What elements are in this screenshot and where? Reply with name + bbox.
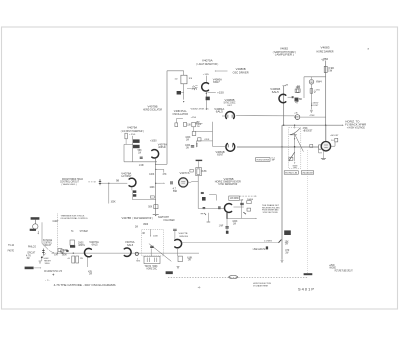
potentiometer bottom left [42, 249, 44, 256]
svg-text:S 4 0 1 P: S 4 0 1 P [298, 288, 315, 292]
svg-text:V4070A: V4070A [202, 59, 213, 62]
wire V4081B pin right [288, 96, 292, 98]
resistor marks above V4077A [190, 169, 193, 172]
wire V4081B vertical [283, 86, 285, 125]
wire to arrow [156, 182, 161, 184]
wire dark cathode segment [226, 213, 228, 219]
capacitor dark pair [240, 203, 244, 204]
svg-text:50K: 50K [148, 207, 153, 209]
wire tube2 cathode down [155, 159, 157, 165]
wire from osc to coupling [195, 131, 212, 133]
capacitor C403 electrolytic [295, 98, 298, 101]
svg-text:+250: +250 [191, 117, 197, 119]
svg-text:100K: 100K [150, 187, 156, 189]
diagonal winding tap [295, 135, 304, 152]
svg-text:CHES: CHES [78, 242, 84, 244]
marks left of cathode [201, 213, 204, 215]
arrow from hold control [88, 181, 94, 183]
capacitor left of hook [191, 146, 194, 147]
ground bottom left [39, 261, 42, 263]
svg-text:HORIZ OSCILLATOR: HORIZ OSCILLATOR [143, 108, 162, 111]
blocking osc dashed box [142, 229, 164, 256]
wire V4078A cathode to line [131, 190, 133, 199]
termination bar output cathode [321, 158, 326, 160]
svg-text:6SN7: 6SN7 [213, 82, 220, 84]
diode diagonal yoke [289, 152, 295, 161]
svg-text:PHOTO: PHOTO [8, 251, 15, 253]
junction V4081B / bus [283, 125, 284, 126]
svg-text:1 MF: 1 MF [139, 165, 145, 167]
resistor 6.8K box [196, 168, 202, 176]
wire inverter left vertical [123, 144, 125, 161]
svg-text:V4076B: V4076B [224, 178, 234, 181]
wire V4078A pin down [131, 188, 133, 191]
resistor phase det 2 [247, 208, 251, 211]
wire to T4074 [150, 249, 152, 257]
junction arrow branch [155, 183, 156, 184]
wire L below-left of output tube [319, 149, 322, 153]
junction dark bottom left [41, 257, 43, 259]
resistor column C [192, 122, 196, 127]
wire angled to bus [49, 250, 53, 252]
arrow mark at line end [278, 240, 281, 243]
svg-text:V4081B: V4081B [216, 152, 226, 154]
tube V4076B [225, 204, 232, 213]
wire inverter left stub [124, 143, 133, 145]
wire V4076B cathode down [226, 213, 228, 233]
svg-text:+BOOST: +BOOST [330, 135, 339, 137]
resistor below bus 1 [72, 256, 75, 263]
boxed label 10K DRIVE [229, 196, 240, 200]
wire diode down [294, 153, 296, 161]
wire bottom bus [52, 252, 200, 254]
capacitor small keyer [203, 208, 206, 209]
wire long vertical left branch [166, 71, 168, 165]
wire left branch vertical [303, 77, 305, 98]
svg-text:V4077B: V4077B [179, 233, 189, 235]
resistor R402 on cathode [310, 89, 313, 94]
wire V4081A left stub [222, 115, 226, 117]
resistor dark box 1 [133, 139, 140, 143]
svg-text:470K: 470K [310, 115, 316, 117]
width coil dark base [70, 245, 75, 247]
svg-text:( AMPLIFIER ): ( AMPLIFIER ) [275, 54, 294, 57]
svg-text:FOLLOWER: FOLLOWER [164, 220, 175, 222]
wire from pilot to damper branch [300, 116, 326, 118]
svg-text:V4082 470K .05: V4082 470K .05 [191, 108, 210, 110]
svg-text:10K 9489: 10K 9489 [230, 198, 239, 200]
dashed signal line bottom [168, 277, 308, 279]
svg-text:SAWTOOTH: SAWTOOTH [158, 216, 169, 219]
svg-text:CANT: CANT [53, 220, 60, 223]
arrow mark after line length [266, 246, 268, 249]
label SYNC IN dark text [25, 267, 34, 270]
junction flyback tap [294, 146, 296, 148]
flyback winding arc [290, 128, 301, 135]
resistor column D [192, 132, 196, 136]
svg-text:( WHEN USED ): ( WHEN USED ) [62, 184, 77, 186]
resistor R401 3.9K [324, 66, 327, 72]
oval terminal on dashed line [229, 276, 238, 279]
capacitor plate bar above keyer [196, 160, 203, 161]
svg-text:+B BOOST: +B BOOST [303, 131, 313, 133]
svg-text:DET: DET [228, 105, 233, 107]
resistor right of dotted line [310, 144, 313, 147]
tube V4080 output ring [321, 142, 330, 151]
capacitor C402 box [297, 89, 301, 93]
wire V4077A pin right [188, 181, 191, 183]
bracket pin left of output tube [319, 145, 322, 149]
svg-text:V4078B: V4078B [122, 217, 132, 220]
wire cathode follower long line [182, 242, 280, 244]
svg-text:( 1/2 6SN7 INVERTER ): ( 1/2 6SN7 INVERTER ) [121, 131, 144, 133]
svg-text:3.9K: 3.9K [328, 68, 335, 70]
resistor dark below V4078A 1 [133, 190, 136, 193]
svg-text:PHILCO: PHILCO [28, 246, 36, 248]
dashed leader to right [240, 195, 256, 197]
wire between resistors [193, 127, 195, 132]
wire AFC output line [236, 115, 294, 117]
svg-text:BOOST: BOOST [311, 105, 319, 107]
termination bar small [207, 221, 211, 223]
svg-text:-4-: -4- [198, 287, 201, 290]
svg-text:+ HIGH VOLTAGE: + HIGH VOLTAGE [347, 126, 365, 129]
resistor V4077B cathode [178, 256, 182, 262]
coil horiz hold loop [35, 220, 37, 224]
svg-text:MEG: MEG [136, 261, 140, 263]
wire to +150 label [208, 91, 216, 93]
svg-text:1 MF: 1 MF [219, 226, 224, 228]
wire to damper tube [310, 77, 312, 79]
tube V4081B lower inner pins [227, 144, 229, 147]
deflection coil dark bar [304, 273, 313, 275]
arrowhead yoke down [294, 163, 295, 164]
svg-text:WIDTH: WIDTH [78, 245, 85, 247]
svg-text:+350: +350 [321, 58, 329, 61]
wire corner to long vertical [156, 163, 167, 165]
diagonal wire to bus [42, 243, 48, 249]
wire to coil [187, 87, 192, 89]
capacitor on cathode [225, 227, 228, 228]
wire damper plate vertical [325, 61, 327, 142]
resistor column A [175, 123, 178, 127]
wire sync in arrow [34, 267, 40, 269]
tube V4081A [226, 112, 235, 119]
svg-text:PICTURE TUBE CIRCUIT: PICTURE TUBE CIRCUIT [335, 270, 353, 272]
svg-text:47K: 47K [163, 174, 168, 176]
svg-text:TV-10: TV-10 [8, 245, 15, 247]
potentiometer small mark [196, 143, 198, 147]
arrowhead to flyback [342, 125, 343, 126]
resistor 50K on vertical [154, 205, 158, 209]
junction grid [108, 183, 109, 184]
transformer T4070 box [181, 75, 187, 84]
junction with drive line [281, 146, 282, 147]
wire inverter vertical [131, 136, 133, 162]
wire bracket vertical [215, 195, 217, 201]
capacitor before V4077A [171, 181, 172, 184]
svg-text:6W4: 6W4 [316, 81, 322, 83]
svg-text:2ND ANODE: 2ND ANODE [302, 171, 313, 174]
wire flyback center tap [294, 133, 296, 147]
junction cathode corner [155, 164, 156, 165]
svg-text:OSC DRIVER: OSC DRIVER [233, 71, 249, 74]
wire inverter bottom horizontal [124, 161, 157, 163]
capacitor hatched below V4070A [206, 97, 210, 101]
wire V4077B cathode down [177, 248, 179, 256]
svg-text:ANODE: ANODE [329, 267, 336, 270]
wire grid branch down [108, 183, 110, 203]
wire V4070A cathode vertical [205, 91, 207, 110]
wire output tube plate [325, 125, 327, 141]
coil L4070 squiggle [192, 88, 197, 90]
svg-text:V4082: V4082 [280, 48, 289, 51]
width coil box left [70, 240, 75, 245]
wire diode cathode down [86, 258, 88, 268]
svg-text:HORIZ DAMPER: HORIZ DAMPER [317, 50, 334, 53]
wire V4077A to keyer [191, 181, 198, 183]
resistor dark box 2 [133, 145, 140, 148]
svg-text:V4080A: V4080A [213, 78, 223, 81]
svg-text:V4076A: V4076A [89, 241, 99, 244]
svg-text:V4083: V4083 [321, 47, 331, 50]
svg-text:100K: 100K [153, 236, 159, 238]
diagonal arrow to junction [43, 253, 46, 256]
wire hold to V4078A grid [101, 182, 127, 184]
junction cathode [206, 93, 207, 94]
svg-text:6AL5: 6AL5 [216, 111, 224, 114]
wire +350 tick [322, 60, 324, 62]
junction circle output [135, 252, 138, 255]
wire long vertical feed [281, 125, 283, 259]
svg-text:LINE LENGTH: LINE LENGTH [253, 249, 266, 251]
svg-text:V4077A: V4077A [180, 172, 190, 175]
capacitor above bus second [66, 250, 68, 251]
wire branch to 47K [156, 168, 164, 170]
capacitor left of V4076B [219, 206, 220, 209]
component BAL dark box [177, 91, 181, 95]
resistor right of V4081B [295, 89, 299, 93]
svg-text:100K: 100K [111, 201, 117, 203]
wire top left horizontal [167, 70, 184, 72]
svg-text:+150: +150 [129, 134, 136, 136]
resistor left of inverter [125, 133, 127, 139]
capacitor dark electrolytic keyer [202, 197, 206, 201]
wire HV bus [282, 124, 342, 126]
capacitor blocking [150, 246, 153, 247]
boxed label focus control [256, 158, 270, 162]
svg-text:HORIZ LIN: HORIZ LIN [285, 172, 297, 174]
junction branch [155, 169, 156, 170]
wire output cathode down [322, 151, 324, 159]
svg-text:( SAWTOOTH HORIZ ): ( SAWTOOTH HORIZ ) [273, 51, 296, 54]
arrowhead to bus [53, 252, 54, 253]
component dark at cathode bottom [226, 231, 229, 234]
label TUNE dark text [30, 229, 36, 231]
junction bus / damper [325, 125, 326, 126]
termination bar [153, 213, 159, 215]
terminal +B pilot circle [295, 115, 300, 120]
svg-text:SYNC SEPARATOR: SYNC SEPARATOR [218, 183, 237, 186]
tube V4079A section 2 [152, 150, 159, 158]
tube V4077A ring [179, 178, 188, 187]
svg-text:VOLTAGE HERE: VOLTAGE HERE [253, 284, 268, 287]
wire boost resistor to tube [331, 142, 335, 146]
boxed label horiz linearity [284, 171, 298, 174]
width coil box [289, 157, 293, 160]
wire damper cathode vertical [310, 84, 312, 109]
tube V4083 envelope [309, 80, 314, 85]
transformer T4074 box [144, 256, 160, 263]
junction bus a [57, 252, 58, 253]
arrowhead inside box [150, 236, 151, 237]
boxed label horiz width [301, 171, 313, 174]
arrowhead down winding [294, 138, 295, 139]
svg-text:OSCILLATOR: OSCILLATOR [173, 113, 189, 116]
ground V4077B [177, 267, 180, 269]
plus mark [52, 274, 54, 276]
ground damper cathode [310, 110, 313, 112]
wire keyer to tube grid [198, 208, 224, 210]
wire small corner [176, 118, 183, 120]
svg-text:SYSTEM: SYSTEM [80, 231, 88, 233]
capacitor inverter [140, 157, 143, 158]
tube V4077B [175, 239, 182, 247]
svg-text:SYNC SECTIONS: SYNC SECTIONS [263, 212, 278, 214]
wire long lower vertical [155, 159, 157, 215]
wire resistor to box [125, 139, 127, 145]
svg-text:AMPLIF.: AMPLIF. [158, 146, 166, 149]
wire hook down [195, 141, 197, 147]
wire dotted long vertical right [307, 150, 309, 273]
wire dotted branch left [56, 214, 58, 254]
arrowhead down left cluster [38, 233, 39, 234]
svg-text:V4079A: V4079A [127, 127, 137, 130]
tube V4070A section [202, 83, 209, 91]
termination bars yoke [293, 165, 298, 167]
svg-text:+1000: +1000 [150, 140, 157, 142]
capacitor at V4081B pin [292, 96, 293, 98]
resistor column B [184, 122, 187, 126]
svg-text:HORIZ OSC: HORIZ OSC [147, 269, 158, 271]
wire V4076B plate right [234, 206, 244, 208]
arrowhead output [256, 218, 257, 219]
resistor below bus 2 [76, 256, 79, 263]
ground long vertical [281, 260, 284, 262]
wire keyer vertical [197, 175, 199, 208]
svg-text:4-76 THE CATHODE - RAY OSCI: 4-76 THE CATHODE - RAY OSCILLOGRAMS [54, 283, 116, 287]
svg-text:V4076A: V4076A [125, 241, 135, 244]
svg-text:10K: 10K [187, 124, 191, 126]
wire comparator output [227, 217, 256, 219]
tube V4076A left [85, 248, 92, 256]
tube V4081A inner pins [227, 115, 229, 118]
mark small star [243, 212, 246, 214]
svg-text:360K: 360K [62, 255, 68, 257]
arrowhead into V4077A [164, 183, 165, 184]
T4074 internal marks [146, 258, 148, 262]
junction comparator [226, 218, 227, 219]
flyback winding bar [290, 134, 297, 136]
capacitor on cathode line [150, 196, 154, 198]
junction left of pilot [295, 116, 296, 117]
svg-text:ON HORIZONTAL CONTROL: ON HORIZONTAL CONTROL [60, 217, 88, 220]
wire stub to osc transformer [183, 71, 185, 75]
capacitor on keyer vertical [201, 192, 204, 193]
svg-text:( SAW GENERATOR ): ( SAW GENERATOR ) [133, 217, 153, 220]
svg-text:6SN7: 6SN7 [217, 155, 224, 157]
wire flyback top stub [294, 125, 296, 128]
wire to diode [294, 147, 296, 153]
mark inside box [143, 232, 145, 234]
flyback transformer dashed box [289, 128, 301, 169]
wire stub near 2R [196, 122, 203, 124]
junction bus c [73, 252, 74, 253]
svg-text:PHASE: PHASE [247, 198, 253, 201]
resistor dark below V4078A 2 [133, 194, 136, 197]
resistor boost [335, 138, 338, 142]
potentiometer hold [99, 179, 101, 185]
wire T4070 bottom vertical [183, 84, 185, 100]
svg-text:6AL5: 6AL5 [92, 244, 99, 247]
wire into V4077B [174, 231, 176, 240]
capacitor above V4077B [173, 228, 177, 230]
wire bar to box [198, 161, 200, 167]
svg-text:56R: 56R [173, 191, 177, 193]
svg-text:100K: 100K [149, 174, 155, 176]
wire coupling to lower diode [213, 145, 226, 147]
tube V4081B [279, 94, 286, 102]
svg-text:CATHODE: CATHODE [179, 235, 188, 238]
svg-text:470K: 470K [204, 139, 210, 141]
capacitor above bus small [60, 250, 64, 252]
diagonal blocking osc [149, 244, 171, 262]
resistor above bus [58, 249, 62, 252]
tube V4076A right [124, 248, 131, 256]
wire bracket horizontal [209, 194, 216, 196]
junction flyback bus [294, 125, 295, 126]
wire left vertical [41, 222, 43, 243]
wire detector vertical [241, 201, 243, 219]
resistor phase det [247, 201, 251, 204]
wire inside box [150, 229, 152, 235]
tube V4078A [129, 178, 136, 186]
svg-text:( LIGHT DETECTOR ): ( LIGHT DETECTOR ) [196, 63, 218, 66]
label HORIZ dark bottom [166, 271, 173, 274]
wire tee to coupling vertical [196, 140, 212, 142]
wire BAL stub [181, 92, 184, 94]
svg-text:V4079A: V4079A [158, 143, 168, 146]
component hatched right of vertical [284, 230, 291, 235]
wire small stub down [207, 213, 209, 222]
wire V4070A plate stub [205, 76, 207, 83]
svg-text:47K: 47K [54, 254, 59, 256]
capacitor small cluster [198, 138, 201, 141]
wire damper top horizontal [304, 76, 326, 78]
svg-text:6.8K: 6.8K [202, 171, 208, 173]
wire branch drop [163, 169, 165, 172]
svg-text:3300: 3300 [45, 263, 51, 265]
wire coupling vertical [212, 122, 214, 147]
svg-text:- a -: - a - [45, 279, 50, 281]
svg-text:3900: 3900 [143, 224, 149, 226]
resistor 2 right of V4081B [295, 98, 299, 101]
label HORIZ dark text [31, 217, 40, 220]
svg-text:+150: +150 [217, 92, 224, 94]
wire cathode horizontal [132, 199, 155, 201]
junction bus b [61, 252, 62, 253]
arrow-dash to oscillator [215, 70, 228, 72]
